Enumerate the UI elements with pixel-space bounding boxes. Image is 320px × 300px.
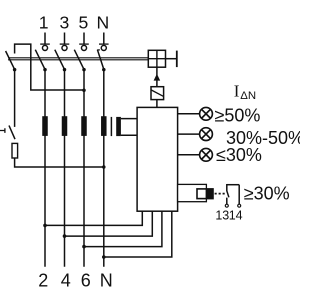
junction stub1 pole 1 bbox=[43, 224, 47, 228]
mechanism box cross vertical bbox=[156, 50, 158, 67]
pole N blade top tick bbox=[97, 49, 100, 51]
mechanical linkage double line lower bbox=[8, 59, 148, 61]
pole 1 wire down bbox=[44, 70, 46, 267]
lamp wire 2 bbox=[178, 133, 200, 135]
pole 5 switch blade bbox=[74, 50, 84, 70]
CT secondary wire upper bbox=[121, 118, 137, 120]
svg-text:ΔN: ΔN bbox=[240, 90, 256, 102]
pole 1 switch blade bbox=[35, 50, 45, 70]
terminal 5 circle bbox=[81, 45, 86, 50]
CT primary bar pole 5 bbox=[81, 116, 87, 136]
pole 1 pivot junction bbox=[43, 68, 47, 72]
left test-pole wire down bbox=[14, 70, 16, 127]
contact 14 leg bbox=[238, 185, 240, 205]
unit output stub 3 bbox=[84, 211, 162, 246]
svg-text:≥50%: ≥50% bbox=[215, 105, 261, 125]
mechanism end bar bbox=[176, 51, 178, 68]
svg-text:N: N bbox=[100, 271, 113, 291]
pole 5 pivot junction bbox=[82, 68, 86, 72]
junction test wire to pole N bbox=[102, 165, 106, 169]
left test-pole switch blade bbox=[6, 51, 15, 69]
terminal 14 circle bbox=[238, 204, 241, 207]
svg-text:6: 6 bbox=[81, 271, 91, 291]
mechanical linkage double line upper bbox=[8, 57, 148, 59]
trip relay stub to unit bbox=[156, 100, 158, 108]
CT primary bar pole 3 bbox=[62, 116, 68, 136]
breaker mechanism box bbox=[148, 50, 165, 67]
contact 13-14 blade bbox=[227, 191, 229, 198]
svg-text:1: 1 bbox=[39, 12, 49, 32]
indicator lamp 3 bbox=[200, 148, 213, 161]
pole 3 switch blade bbox=[55, 50, 65, 70]
pole 3 pivot junction bbox=[63, 68, 67, 72]
output relay inner box bbox=[197, 189, 213, 199]
trip relay diagonal bbox=[151, 90, 163, 96]
terminal N stub bbox=[103, 33, 105, 45]
CT primary bar pole N bbox=[101, 116, 107, 136]
pole 5 wire down bbox=[83, 70, 85, 267]
indicator lamp 1 bbox=[200, 107, 213, 120]
junction hook to pole 5 bbox=[82, 88, 86, 92]
terminal 1 circle bbox=[42, 45, 47, 50]
unit output stub 1 bbox=[45, 211, 142, 225]
svg-text:14: 14 bbox=[229, 209, 243, 223]
electronic unit box bbox=[137, 107, 178, 211]
pole N switch blade bbox=[97, 50, 103, 70]
test switch blade bbox=[9, 126, 15, 140]
svg-text:5: 5 bbox=[79, 12, 89, 32]
junction stub2 pole 3 bbox=[63, 234, 67, 238]
output relay dashed link bbox=[215, 193, 226, 195]
svg-text:2: 2 bbox=[38, 271, 48, 291]
indicator lamp 2 bbox=[200, 128, 213, 141]
contact 13-14 bridge bbox=[227, 184, 239, 186]
terminal 3 circle bbox=[62, 45, 67, 50]
output relay armature fill bbox=[206, 189, 213, 199]
svg-text:≥30%: ≥30% bbox=[244, 184, 290, 204]
terminal 5 bar bbox=[79, 43, 89, 45]
mechanism box cross horizontal bbox=[148, 58, 165, 60]
left test-pole pivot junction bbox=[13, 68, 17, 72]
mechanism right link bbox=[166, 58, 177, 60]
terminal 1 stub bbox=[44, 33, 46, 45]
trip relay box bbox=[151, 87, 164, 100]
svg-text:I: I bbox=[234, 81, 240, 100]
CT primary bar pole 1 bbox=[42, 116, 48, 136]
lamp wire 1 bbox=[178, 113, 200, 115]
unit output stub 2 bbox=[65, 211, 153, 236]
junction stub3 pole 5 bbox=[82, 245, 86, 249]
trip arrow head bbox=[154, 74, 161, 81]
output relay outer box bbox=[178, 184, 207, 201]
junction stub4 pole N bbox=[102, 255, 106, 259]
pole N wire down bbox=[103, 70, 105, 267]
unit output stub 4 bbox=[104, 211, 172, 257]
resistor R test bbox=[12, 143, 18, 158]
pole 3 wire down bbox=[64, 70, 66, 267]
svg-text:N: N bbox=[97, 12, 110, 32]
terminal 3 bar bbox=[60, 43, 70, 45]
contact 13-14 left leg bbox=[226, 184, 228, 191]
pole N pivot junction bbox=[102, 68, 106, 72]
CT core line bbox=[110, 117, 112, 136]
terminal N circle bbox=[101, 45, 106, 50]
terminal 5 stub bbox=[83, 33, 85, 45]
left test-pole feed hook wire bbox=[15, 44, 84, 90]
svg-text:13: 13 bbox=[215, 209, 229, 223]
svg-text:3: 3 bbox=[60, 12, 70, 32]
test button handle bbox=[0, 128, 5, 133]
svg-text:4: 4 bbox=[61, 271, 71, 291]
trip arrow upper line bbox=[156, 67, 158, 75]
lamp wire 3 bbox=[178, 154, 200, 156]
terminal 13 circle bbox=[225, 204, 228, 207]
CT secondary wire lower bbox=[121, 134, 137, 136]
terminal N bar bbox=[99, 43, 109, 45]
svg-text:≤30%: ≤30% bbox=[216, 145, 262, 165]
contact 13 stub bbox=[226, 198, 228, 205]
CT secondary bar bbox=[116, 117, 121, 136]
terminal 3 stub bbox=[64, 33, 66, 45]
terminal 1 bar bbox=[40, 43, 50, 45]
trip arrow shaft bbox=[156, 80, 158, 87]
resistor lower wire bbox=[15, 158, 104, 167]
